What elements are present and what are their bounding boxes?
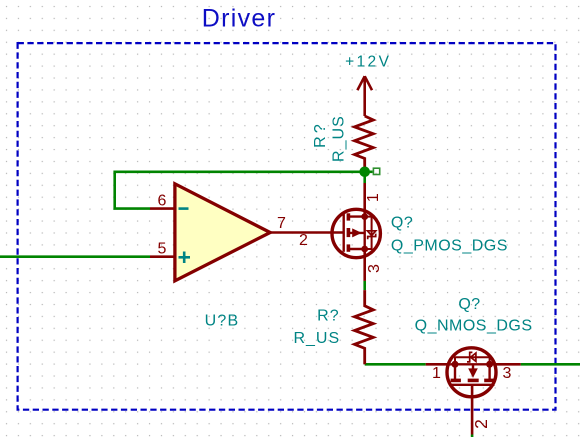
resistor R1 body: [355, 116, 374, 172]
svg-text:R_US: R_US: [330, 115, 347, 162]
junction dots: [361, 213, 368, 220]
D-S horizontal: [451, 363, 495, 365]
svg-text:1: 1: [365, 193, 382, 202]
diode triangle (anode up, apex down): [367, 231, 375, 236]
left riser: [454, 364, 456, 380]
triangle body: [175, 184, 270, 281]
dangling end square: [373, 168, 379, 174]
diode triangle pointing left: [471, 353, 476, 361]
wire: NMOS pin 3 to right edge: [521, 363, 580, 366]
svg-text:R_US: R_US: [293, 330, 340, 347]
transistor Q? NMOS: [415, 296, 533, 435]
op-amp U?B: [150, 184, 344, 330]
pin 5 stub: [150, 255, 175, 258]
pin 1 stub (left): [426, 363, 451, 366]
svg-text:1: 1: [432, 365, 441, 382]
gate pin down: [471, 385, 474, 435]
channel bars: [451, 379, 461, 383]
svg-text:Driver: Driver: [202, 5, 276, 33]
wire: R2 bottom to NMOS pin 1: [365, 363, 426, 366]
svg-text:Q_NMOS_DGS: Q_NMOS_DGS: [415, 318, 533, 335]
source link: [348, 248, 364, 250]
diode cathode bar with hooks: [368, 234, 376, 239]
svg-text:Q?: Q?: [458, 296, 480, 313]
plus symbol: [179, 256, 191, 259]
svg-text:U?B: U?B: [205, 313, 240, 330]
diode cathode bar with hooks: [467, 352, 472, 362]
svg-text:7: 7: [277, 215, 286, 232]
gate bar: [343, 213, 345, 252]
transistor Q? PMOS: [332, 183, 508, 281]
svg-text:2: 2: [299, 232, 308, 249]
power symbol +12V: [357, 76, 372, 116]
body diode branch: [455, 357, 490, 364]
junction dot: [359, 167, 370, 178]
svg-text:R?: R?: [317, 308, 339, 325]
svg-text:R?: R?: [312, 121, 329, 148]
wire: junction down to PMOS drain pin: [363, 172, 366, 183]
svg-text:2: 2: [471, 419, 491, 429]
wire: stub right of junction: [365, 171, 373, 174]
channel bars: [347, 213, 351, 220]
minus symbol: [179, 207, 189, 210]
svg-text:3: 3: [366, 264, 383, 273]
svg-text:6: 6: [158, 193, 167, 210]
arrow line with arrowhead pointing right: [348, 232, 364, 234]
D-S vertical: [364, 217, 366, 249]
middle arrow stem: [472, 364, 474, 369]
wire: feedback loop from output junction to pin 6: [115, 172, 365, 209]
pin 3 stub (right): [495, 363, 521, 366]
pin 6 stub: [150, 207, 175, 210]
circle: [447, 348, 496, 397]
arrow triangle pointing down: [468, 368, 478, 378]
wire: NMOS gate wire bottom edge: [471, 435, 474, 437]
resistor R2 body: [355, 290, 374, 364]
output pin 7 / PMOS gate pin 2 line: [270, 231, 344, 234]
pin 1 (drain, top): [363, 183, 366, 217]
junction dots: [452, 361, 459, 368]
drain link: [348, 215, 364, 217]
sheet/bounding dashed rectangle: [18, 43, 556, 410]
wire: input wire to op-amp pin 5: [0, 255, 150, 258]
svg-text:Q?: Q?: [391, 215, 413, 232]
gate bar: [451, 384, 495, 386]
wire: PMOS source to R2: [363, 281, 366, 290]
svg-text:5: 5: [158, 241, 167, 258]
svg-text:+12V: +12V: [345, 54, 391, 71]
svg-text:3: 3: [503, 365, 512, 382]
right riser: [488, 364, 490, 380]
circle: [332, 209, 380, 257]
svg-text:Q_PMOS_DGS: Q_PMOS_DGS: [391, 238, 508, 255]
body diode branch: [365, 217, 372, 249]
pin 3 (source, bottom): [363, 249, 366, 281]
